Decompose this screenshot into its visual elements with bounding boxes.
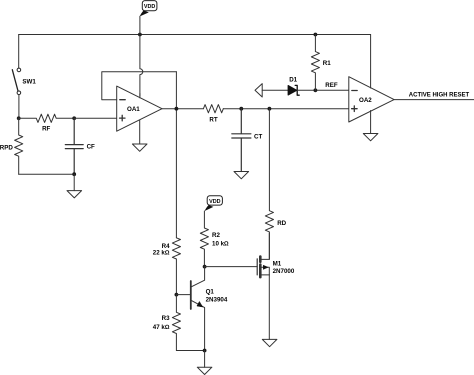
wire OA1 bottom pin to ground <box>139 120 141 144</box>
node SW1 / RF / RPD junction <box>17 116 21 120</box>
wire collector node to M1 gate <box>205 266 258 268</box>
wire VDD flag to bus and down to OA1 supply (with hop over feedback wire) <box>140 16 143 96</box>
transistor M1 <box>257 233 295 277</box>
capacitor CT <box>232 109 263 172</box>
svg-text:CT: CT <box>254 134 262 141</box>
svg-text:R2: R2 <box>212 232 220 239</box>
resistor RD <box>265 109 286 260</box>
wire VDD bus down to OA2 supply <box>370 35 372 89</box>
ground (below CT) <box>234 172 249 179</box>
svg-text:OA1: OA1 <box>127 106 140 113</box>
svg-text:RT: RT <box>209 117 217 124</box>
wire OA1 feedback loop (inverting input to output node) <box>102 72 177 100</box>
ground (below CF) <box>67 191 82 198</box>
svg-text:D1: D1 <box>289 77 297 84</box>
wire OA1 output line to OA2 non-inverting input <box>162 108 349 110</box>
node RD branch junction <box>268 107 272 111</box>
svg-text:R1: R1 <box>323 60 331 67</box>
svg-text:REF: REF <box>325 82 338 89</box>
resistor R1 <box>311 35 331 91</box>
ground (below M1) <box>262 339 277 346</box>
node RT / CT junction <box>239 107 243 111</box>
svg-text:R3: R3 <box>162 315 170 322</box>
node R2 / Q1 collector / M1 gate junction <box>203 265 207 269</box>
svg-text:47 kΩ: 47 kΩ <box>153 324 170 331</box>
wire RPD bottom to CF bottom node <box>19 173 74 175</box>
wire R3 bottom to emitter node <box>176 350 204 352</box>
ground (below OA2) <box>363 134 378 141</box>
op-amp OA2 <box>349 77 394 122</box>
svg-text:10 kΩ: 10 kΩ <box>212 240 229 247</box>
svg-text:ACTIVE HIGH RESET: ACTIVE HIGH RESET <box>409 92 470 98</box>
wire emitter node to ground <box>204 351 206 368</box>
svg-text:RPD: RPD <box>0 144 13 151</box>
wire SW1 bottom to RF node <box>18 95 20 119</box>
wire RF node to OA1 non-inverting input <box>74 117 117 119</box>
svg-text:CF: CF <box>87 143 95 150</box>
svg-text:RD: RD <box>277 220 286 227</box>
wire top VDD bus <box>19 34 371 36</box>
wire M1 source to ground <box>268 275 270 340</box>
wire feedback vertical down to R4 branch <box>175 72 177 238</box>
resistor R4 <box>153 238 181 295</box>
transistor Q1 <box>176 267 227 351</box>
wire OA2 output to edge <box>394 99 474 101</box>
svg-text:2N7000: 2N7000 <box>273 268 295 275</box>
ground (below Q1) <box>197 367 212 374</box>
op-amp OA1 <box>117 86 162 131</box>
svg-text:OA2: OA2 <box>359 97 372 104</box>
node Q1 emitter / R3 / ground junction <box>203 349 207 353</box>
wire D1 cathode to OA2 inverting input <box>297 89 349 91</box>
svg-text:22 kΩ: 22 kΩ <box>153 250 170 257</box>
svg-text:VDD: VDD <box>144 4 155 10</box>
node REF / R1 junction <box>314 88 318 92</box>
resistor RF <box>19 114 74 132</box>
wire left vertical from bus to SW1 <box>18 35 20 69</box>
svg-text:VDD: VDD <box>209 199 220 205</box>
wire port to D1 anode <box>262 89 288 91</box>
svg-text:Q1: Q1 <box>206 289 215 296</box>
node feedback / output junction <box>175 107 179 111</box>
terminal arrow (REF input port) <box>255 84 262 97</box>
resistor RPD <box>0 118 23 174</box>
power flag VDD (R2) <box>205 196 223 211</box>
node RPD / CF bottom junction <box>72 172 76 176</box>
svg-text:M1: M1 <box>273 260 282 267</box>
node RF / CF / OA1 input junction <box>72 116 76 120</box>
node Q1 base junction <box>175 293 179 297</box>
resistor RT <box>203 105 223 124</box>
switch SW1 <box>12 68 36 95</box>
diode D1 <box>288 77 299 96</box>
wire CF bottom node to ground <box>73 174 75 190</box>
resistor R3 <box>153 295 181 351</box>
capacitor CF <box>65 118 95 174</box>
resistor R2 <box>200 211 229 267</box>
svg-text:2N3904: 2N3904 <box>206 296 228 303</box>
node VDD bus / R1 junction <box>314 33 318 37</box>
svg-text:SW1: SW1 <box>22 79 36 86</box>
power flag VDD (top) <box>140 1 157 17</box>
node VDD bus / OA1 supply junction <box>138 33 142 37</box>
wire OA2 bottom pin to ground <box>370 111 372 134</box>
ground (below OA1) <box>132 144 147 151</box>
wire OA1 supply stub into triangle top <box>139 94 141 98</box>
svg-text:RF: RF <box>42 126 50 133</box>
